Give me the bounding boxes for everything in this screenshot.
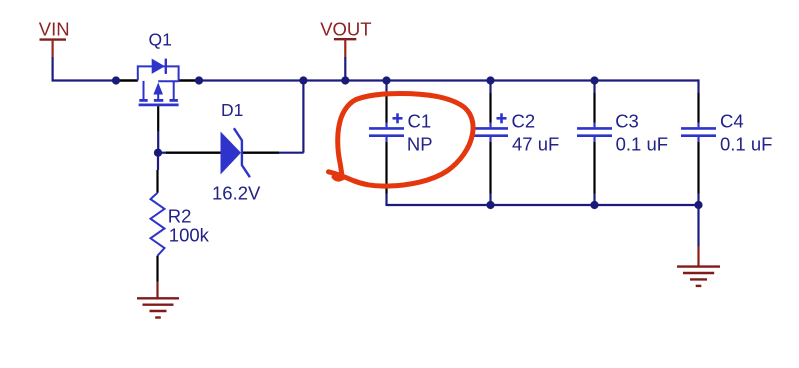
ground GND1 stub (red) [156,282,158,299]
wire D1 node horizontal (navy left) [158,152,166,154]
wire C1 top stub [385,81,387,94]
wire C3 bottom stub [593,194,595,206]
wire main top rail right [199,79,699,81]
svg-text:C4: C4 [720,111,744,132]
wire node to R2 [157,153,159,170]
pin R2 top (black) [156,170,158,193]
body diode cathode bar of Q1 [165,59,167,74]
Q1 source vertical [173,81,175,99]
body diode triangle of Q1 [152,59,165,74]
Q1 body arrow [153,83,163,95]
net label VIN [39,18,70,39]
C4 symbol stubs and plates [697,123,699,128]
wire C1 bottom stub [385,194,387,207]
capacitor C2 [473,81,559,206]
svg-text:Q1: Q1 [149,29,172,49]
pin C3 top (black) [593,93,595,123]
junction dot gate node [154,149,162,157]
junction dot C3 top [590,76,598,84]
wire riser to top rail [302,81,304,153]
pin C1 top (black) [385,93,387,123]
power port stub VIN (red part) [51,40,53,57]
pin D1 cathode (black) [243,151,279,153]
pin C4 top (black) [697,93,699,123]
wire C4 bottom stub [697,194,699,206]
junction dot D1 riser [299,76,307,84]
Q1 middle channel bar [154,99,163,102]
wire main top rail left [52,79,117,81]
wire VOUT vertical [344,57,346,81]
svg-text:D1: D1 [221,100,243,120]
wire Q1 gate to node [157,131,159,153]
C1 symbol stubs and plates [385,123,387,128]
Q1 body arrow stem [157,94,159,99]
pin C2 top (black) [489,93,491,123]
wire C2 bottom stub [489,194,491,206]
svg-text:C2: C2 [512,111,536,132]
capacitor C3 [577,81,668,206]
svg-text:NP: NP [407,134,433,155]
svg-text:0.1 uF: 0.1 uF [720,134,772,155]
junction dot Q1 drain [112,76,120,84]
power port bar VIN [40,38,67,40]
Q1 source channel bar [170,99,178,102]
svg-text:R2: R2 [168,206,192,227]
wire C4 top stub [697,79,699,93]
Q1 source horizontal [158,80,178,82]
wire D1 cathode to riser [279,152,304,154]
zener diode D1 cathode bar with wings [234,128,250,177]
pin D1 anode (black) [166,151,221,153]
svg-text:VIN: VIN [39,18,70,39]
C3 symbol stubs and plates [593,123,595,128]
power port bar VOUT [334,38,356,40]
junction dot C4 bottom [694,201,702,209]
pin C3 bottom (black) [593,142,595,194]
junction dot C2 bottom [486,201,494,209]
junction dot Q1 source [195,76,203,84]
annotation red circle around C1 [329,94,474,187]
pin C4 bottom (black) [697,142,699,194]
wire VIN vertical [51,57,53,82]
svg-text:VOUT: VOUT [320,19,371,40]
wire C4 to ground [697,205,699,247]
pin Q1 drain (black) [116,79,138,81]
C2 plus sign [497,117,507,120]
wire C3 top stub [593,81,595,94]
transistor Q1 (P-MOSFET with body diode) [138,59,179,105]
Q1 drain channel bar [139,99,147,102]
ground GND2 stub (red) [697,247,699,267]
power port stub VOUT (red part) [344,39,346,57]
svg-text:C3: C3 [615,111,639,132]
pin C2 bottom (black) [489,142,491,194]
junction dot VOUT [341,76,349,84]
svg-text:16.2V: 16.2V [212,182,261,203]
junction dot C3 bottom [590,201,598,209]
pin Q1 gate (black) [157,106,159,131]
annotation pen hook at loop end [334,177,342,180]
wire C2 top stub [489,81,491,94]
ground GND2 symbol [677,267,720,286]
C1 plus sign [393,117,403,120]
junction dot C2 top [486,76,494,84]
svg-text:100k: 100k [169,225,210,246]
pin C1 bottom (black) [385,142,387,194]
svg-text:C1: C1 [408,111,432,132]
pin Q1 source (black) [179,79,199,81]
body diode loop of Q1 [138,66,179,80]
Q1 gate plate [139,104,179,107]
svg-text:47 uF: 47 uF [512,134,559,155]
resistor R2 zigzag [151,193,165,256]
wire bottom rail [387,204,699,206]
C2 symbol stubs and plates [489,123,491,128]
ground GND1 symbol [137,298,179,317]
capacitor C4 [681,79,772,205]
zener diode D1 triangle [221,132,242,175]
capacitor C1 [369,81,433,207]
junction dot C1 top [382,76,390,84]
pin R2 bottom (black) [156,256,158,282]
Q1 drain vertical [143,81,145,99]
svg-text:0.1 uF: 0.1 uF [616,134,668,155]
